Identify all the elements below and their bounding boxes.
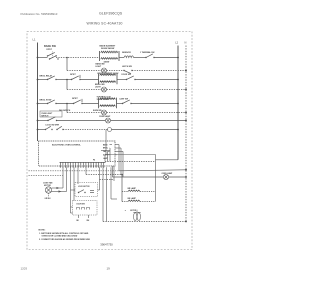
wire control to element feeder xyxy=(106,154,156,156)
switch top broil relay xyxy=(47,100,57,104)
wire L1 to top broil switch xyxy=(38,103,48,105)
element left tie vertical xyxy=(121,175,123,202)
junction broil rung / indicator drop xyxy=(66,79,68,81)
resistor oven sensor xyxy=(124,56,134,58)
wire to bake indicator lamp (dashed) xyxy=(67,70,102,72)
lamp lock indicator xyxy=(108,128,112,132)
switch spst broil xyxy=(71,75,81,80)
wire broil element to door switch xyxy=(117,79,127,81)
svg-text:LIMIT SW: LIMIT SW xyxy=(120,98,129,100)
wire limit switch to L2 xyxy=(131,103,178,105)
switch thermal limiter xyxy=(145,54,154,58)
junction L1 / bake rung xyxy=(37,57,39,59)
wire dlb dashed lateral xyxy=(105,161,156,163)
wire exit vertical broil xyxy=(120,148,122,175)
comb wire drop 7 xyxy=(99,167,101,190)
resistor bake lamp element xyxy=(128,200,140,202)
lock motor solenoid coils xyxy=(133,210,140,221)
svg-text:1203: 1203 xyxy=(21,266,28,270)
junction L2 / bake rung xyxy=(177,57,179,59)
resistor broil lamp element xyxy=(128,190,140,192)
wire fan feed dashed section xyxy=(29,170,120,172)
L2 bus xyxy=(177,46,179,160)
svg-text:LOCK SW MTR: LOCK SW MTR xyxy=(46,125,60,127)
junction L1 / broil rung xyxy=(37,79,39,81)
door switch contacts xyxy=(77,208,90,210)
svg-text:BROIL: BROIL xyxy=(103,148,108,150)
svg-text:N: N xyxy=(185,41,187,45)
svg-text:LATCH SW: LATCH SW xyxy=(122,65,132,68)
svg-text:Publication No. 5995398913: Publication No. 5995398913 xyxy=(21,12,58,16)
svg-text:WIRING SC-40AA730: WIRING SC-40AA730 xyxy=(87,21,123,25)
switch lock motor B xyxy=(56,126,63,130)
switch lock motor A xyxy=(45,126,53,130)
wire lock indicator to L2 xyxy=(112,129,179,131)
door box feed left xyxy=(71,206,73,208)
junction lamp feed / tie xyxy=(121,174,123,176)
svg-text:GR WH: GR WH xyxy=(45,198,52,200)
wire keyboard dashed lateral xyxy=(100,179,115,181)
svg-text:CONV FAN: CONV FAN xyxy=(43,181,53,184)
switch inside latch box xyxy=(78,190,86,194)
wire bake switch to bake element (dashed) xyxy=(56,57,100,59)
wire fan motor lead 2 xyxy=(52,191,67,193)
wire lamp to N xyxy=(169,176,186,178)
comb wire drop 3 xyxy=(70,167,72,213)
electronic oven control U1 (box) xyxy=(39,141,116,166)
comb wire drop 10 xyxy=(110,167,112,199)
comb wire drop 8 xyxy=(102,167,104,221)
junction N / fan line xyxy=(185,169,187,171)
junction L1 / oven light rung xyxy=(37,120,39,122)
wire fan motor lead 1 xyxy=(52,187,63,189)
svg-text:BROIL HI SW: BROIL HI SW xyxy=(40,99,52,101)
terminal arrow fan lead 2 xyxy=(59,190,62,192)
bake lamp stub right (dashed) xyxy=(140,201,156,203)
svg-text:LOCK MOTOR: LOCK MOTOR xyxy=(78,186,90,188)
latch box aux contact 2 xyxy=(90,192,94,194)
svg-text:39047730: 39047730 xyxy=(100,243,113,247)
svg-text:1. SWITCHES SHOWN WITH ALL CON: 1. SWITCHES SHOWN WITH ALL CONTROLS OFF … xyxy=(39,232,89,235)
lamp oven cavity xyxy=(106,118,111,123)
wire fan feed line to N xyxy=(119,170,186,171)
stub exit bake xyxy=(115,144,119,146)
comb wire lateral 6 xyxy=(86,174,122,176)
door box lateral xyxy=(71,212,73,214)
junction L2 / broil rung xyxy=(177,79,179,81)
junction N / broil indicator rung xyxy=(185,89,187,91)
motor M1 convection fan xyxy=(45,187,51,193)
stub internal horizontal xyxy=(101,150,110,152)
oven light switch label box xyxy=(40,111,62,117)
switch latch interlock xyxy=(123,70,132,74)
svg-text:NOTE:: NOTE: xyxy=(39,229,46,231)
bake element (dual coil) xyxy=(100,51,120,61)
comb wire drop 5 xyxy=(77,167,79,184)
wire L1 to broil switch xyxy=(38,79,48,81)
svg-text:OVEN DOOR CLOSED AND UNLOCKED: OVEN DOOR CLOSED AND UNLOCKED xyxy=(42,235,78,238)
svg-text:BK: BK xyxy=(77,220,80,222)
wire vertical drop B xyxy=(109,148,111,162)
wire oven light switch to oven lamp xyxy=(57,120,106,122)
comb wire drop 4 xyxy=(73,167,75,200)
wire latch switch to N xyxy=(132,70,186,72)
wire to element indicator lamp (dashed) xyxy=(67,112,102,114)
top broil element (dual coil) xyxy=(99,98,117,109)
wire comb tail A xyxy=(112,166,114,177)
door latch switch box (dashed) xyxy=(75,183,98,197)
junction bake rung / indicator drop xyxy=(66,57,68,59)
wire to broil indicator lamp (dashed) xyxy=(67,89,102,91)
wire spst to top broil element xyxy=(82,103,99,105)
latch box aux contact xyxy=(90,190,94,192)
switch oven limit xyxy=(122,100,132,104)
wire broil indicator to N xyxy=(107,89,186,91)
svg-text:L2: L2 xyxy=(175,41,178,45)
junction L1 / top broil rung xyxy=(37,103,39,105)
comb wire drop 2 xyxy=(66,167,68,191)
wire motor feed dashed xyxy=(29,174,64,176)
bottom return wire (dashed) xyxy=(103,221,186,223)
lamp element indicator xyxy=(102,110,107,115)
comb wire drop 9 xyxy=(106,167,108,221)
wire bake element to sensor resistor xyxy=(119,57,124,59)
stub dlb relay output xyxy=(105,154,110,156)
stub broil relay output xyxy=(109,147,112,149)
wire exit vertical fan xyxy=(122,151,124,177)
wire exit vertical bake xyxy=(118,145,120,171)
svg-text:2600W 3400W: 2600W 3400W xyxy=(101,47,114,50)
svg-text:BROIL RELAY: BROIL RELAY xyxy=(40,74,53,77)
junction top broil rung / indicator drop xyxy=(66,103,68,105)
junction N / oven lamp line xyxy=(185,176,187,178)
stub exit fan xyxy=(115,150,123,152)
svg-text:OVEN LAMP: OVEN LAMP xyxy=(99,115,111,118)
switch oven door xyxy=(126,76,136,80)
svg-text:BAKE ELEMENT: BAKE ELEMENT xyxy=(100,44,117,47)
broil lamp stub right (dashed) xyxy=(140,191,156,193)
wire lamp feed line xyxy=(113,176,164,178)
junction N / bake indicator rung xyxy=(185,70,187,72)
svg-text:GLEF396CQS: GLEF396CQS xyxy=(99,11,123,15)
lamp broil indicator xyxy=(102,87,107,92)
comb wire drop 1 xyxy=(62,167,64,188)
wire L1 to oven light switch xyxy=(38,120,49,122)
keyboard bracket xyxy=(111,198,117,200)
latch box stub right xyxy=(98,189,100,191)
wire vertical drop D xyxy=(104,155,106,162)
svg-text:BR LAMP: BR LAMP xyxy=(128,187,137,190)
junction N / oven light rung xyxy=(185,120,187,122)
junction L2 / top broil rung xyxy=(177,103,179,105)
diagram frame (dashed border) xyxy=(27,32,192,250)
svg-text:WH: WH xyxy=(87,220,91,222)
switch broil relay contact xyxy=(47,76,57,80)
switch spst top broil xyxy=(73,99,83,104)
svg-text:BK LAMP: BK LAMP xyxy=(128,197,137,200)
wire L2 corner to element feeder xyxy=(156,159,179,161)
wire element feeder vertical xyxy=(155,155,157,202)
svg-text:FAN SWITCH: FAN SWITCH xyxy=(59,109,71,112)
switch oven light xyxy=(47,117,57,121)
comb wire drop 6 xyxy=(85,167,87,174)
svg-text:SPST: SPST xyxy=(70,74,76,76)
wire top broil sw to spst xyxy=(56,103,74,105)
wire lock switch to indicator xyxy=(63,129,108,131)
svg-text:L1: L1 xyxy=(33,38,36,42)
svg-text:BAKE SW: BAKE SW xyxy=(44,45,56,48)
wire top broil element to limit switch xyxy=(117,103,123,105)
lamp oven (bottom) xyxy=(163,174,168,179)
svg-text:19: 19 xyxy=(107,266,111,270)
wire L1 to lock switch xyxy=(38,129,46,131)
stub fan relay output xyxy=(108,150,110,152)
svg-text:P4: P4 xyxy=(93,159,95,162)
junction N / bottom return xyxy=(185,221,187,223)
svg-text:LIGHT: LIGHT xyxy=(95,86,102,88)
L1 bus xyxy=(37,43,39,142)
wire drop from broil rung to indicator xyxy=(66,80,68,90)
wire comb tail B xyxy=(113,166,115,181)
wire vertical drop C2 xyxy=(107,151,109,161)
fan motor ground stub (dashed) xyxy=(48,193,50,196)
svg-text:SWITCH: SWITCH xyxy=(41,115,49,117)
svg-text:DPST: DPST xyxy=(47,49,53,51)
junction L2 / lock rung xyxy=(177,129,179,131)
svg-text:LIGHT: LIGHT xyxy=(96,66,103,68)
wire door switch to L2 xyxy=(135,79,178,81)
stub bake relay output xyxy=(110,144,113,146)
svg-text:BAKE: BAKE xyxy=(103,143,108,146)
svg-text:DOOR SW: DOOR SW xyxy=(122,74,131,76)
wire drop from bake rung to indicator xyxy=(66,58,68,71)
latch box stub left xyxy=(71,189,76,191)
svg-text:ELEM IND: ELEM IND xyxy=(93,110,102,112)
wire sensor to thermal switch xyxy=(134,57,147,59)
wire broil switch to spst switch xyxy=(56,79,72,81)
svg-text:MOTOR: MOTOR xyxy=(130,210,137,212)
door box pin 2 xyxy=(88,215,90,218)
door box pin 1 xyxy=(78,215,80,218)
stub exit broil xyxy=(115,147,121,149)
svg-text:BAKE IND: BAKE IND xyxy=(96,62,106,65)
wire drop from top broil rung to indicator xyxy=(66,104,68,113)
wire spst to broil element xyxy=(80,79,99,81)
svg-text:ELECTRONIC OVEN CONTROL: ELECTRONIC OVEN CONTROL xyxy=(52,144,82,146)
svg-text:SENSOR: SENSOR xyxy=(122,52,131,54)
bake lamp stub left (dashed) xyxy=(122,201,128,203)
wire L1 to bake switch xyxy=(38,57,48,59)
junction L1 / lock rung xyxy=(37,129,39,131)
connector J1 comb on control board xyxy=(60,162,106,167)
switch bake relay contact (double pole) xyxy=(47,52,59,60)
junction N / element indicator rung xyxy=(185,112,187,114)
N bus (neutral, dashed) xyxy=(185,46,187,222)
wire oven lamp to N xyxy=(111,120,186,122)
svg-text:DOOR SW: DOOR SW xyxy=(77,204,86,206)
oven door switch box (dashed) xyxy=(73,201,98,216)
svg-text:1 THERMAL SW: 1 THERMAL SW xyxy=(140,51,155,54)
svg-text:SPST: SPST xyxy=(72,98,78,100)
wire element indicator to N xyxy=(107,112,186,114)
lamp bake indicator xyxy=(102,68,107,73)
broil lamp stub left (dashed) xyxy=(122,191,128,193)
broil element (dual coil) xyxy=(99,74,118,85)
terminal arrow fan lead 1 xyxy=(57,187,60,189)
wire bake indicator to door switch xyxy=(107,70,124,72)
svg-text:2. CONNECTORS SHOWN AS VIEWED: 2. CONNECTORS SHOWN AS VIEWED FROM WIRE … xyxy=(39,238,91,241)
stub exit dlb xyxy=(115,154,117,156)
wire thermal switch to L2 xyxy=(154,57,178,59)
wire rung8 drop inside control xyxy=(105,130,107,155)
svg-text:*: * xyxy=(125,210,126,213)
